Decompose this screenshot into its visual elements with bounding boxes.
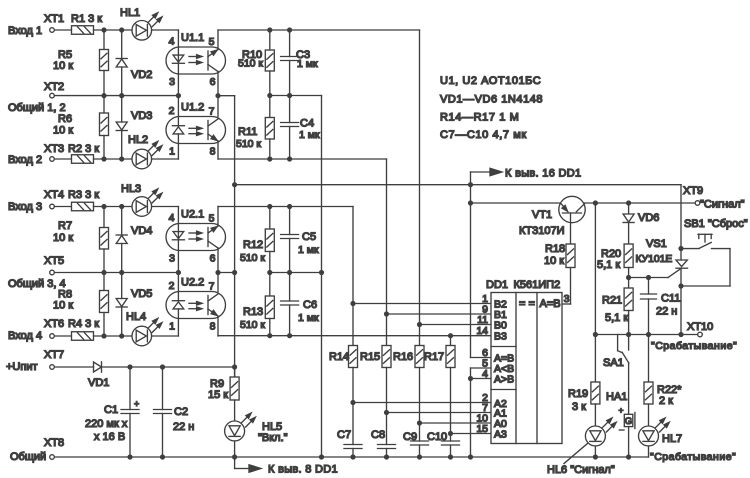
wire B2 to DD1 pin1 bbox=[353, 303, 491, 305]
svg-text:VS1: VS1 bbox=[646, 238, 667, 250]
svg-text:HL4: HL4 bbox=[126, 311, 146, 323]
svg-text:6: 6 bbox=[210, 253, 216, 265]
wire R19 column bbox=[594, 203, 596, 335]
wire U1.1 pin6 drop bbox=[217, 72, 219, 96]
svg-text:1 мк: 1 мк bbox=[299, 129, 320, 141]
node R19 top bbox=[593, 332, 598, 337]
svg-text:К выв. 16 DD1: К выв. 16 DD1 bbox=[505, 168, 581, 180]
svg-text:1: 1 bbox=[169, 321, 175, 333]
wire HL4 to U2.2 pin1 bbox=[152, 335, 179, 337]
node C6 bottom bbox=[287, 333, 292, 338]
node VS1 anode SB1 contact bbox=[678, 246, 683, 251]
wire ground rail Obschiy bbox=[55, 456, 649, 458]
svg-text:Вход 3: Вход 3 bbox=[8, 201, 42, 213]
diode VD4 bbox=[121, 207, 123, 236]
svg-text:R15: R15 bbox=[360, 351, 380, 363]
LED HL2 bbox=[132, 149, 152, 169]
node R3-R7 junction bbox=[101, 204, 106, 209]
svg-text:XT4: XT4 bbox=[44, 189, 64, 201]
svg-text:XT3: XT3 bbox=[44, 143, 64, 155]
svg-text:VD5: VD5 bbox=[131, 288, 152, 300]
capacitor C1 electrolytic bbox=[129, 367, 131, 410]
wire U2.2 pin7 rise bbox=[217, 273, 219, 292]
svg-text:1 мк: 1 мк bbox=[298, 312, 319, 324]
svg-text:VT1: VT1 bbox=[532, 209, 552, 221]
wire DD1 pin5 stub bbox=[471, 367, 492, 369]
svg-text:15: 15 bbox=[476, 423, 488, 435]
wire VS1 cathode down bbox=[680, 286, 682, 335]
svg-text:220 мк х: 220 мк х bbox=[85, 418, 128, 430]
node R17 top tap B3 bbox=[448, 333, 453, 338]
svg-text:10 к: 10 к bbox=[544, 255, 564, 267]
wire VT1 collector line bbox=[585, 202, 695, 204]
resistor R1 bbox=[72, 26, 94, 35]
sounder HA1 bbox=[624, 414, 633, 426]
resistor R15 bbox=[382, 346, 391, 368]
node U2 pins 3-2 bbox=[176, 270, 181, 275]
svg-text:КУ101Е: КУ101Е bbox=[636, 254, 673, 265]
svg-text:R13: R13 bbox=[243, 306, 263, 318]
node C11 top bbox=[646, 275, 651, 280]
LED HL4 bbox=[132, 326, 152, 346]
capacitor C5 bbox=[289, 207, 291, 235]
node C3 top bbox=[287, 27, 292, 32]
resistor R17 bbox=[446, 346, 455, 368]
resistor R5 bbox=[103, 30, 105, 50]
svg-text:R7: R7 bbox=[58, 220, 72, 232]
transistor VT1 bbox=[559, 196, 585, 222]
LED HL5 bbox=[225, 421, 245, 441]
svg-text:VD3: VD3 bbox=[131, 110, 152, 122]
terminal XT4 bbox=[50, 204, 55, 209]
node VD5 bottom bbox=[119, 333, 124, 338]
wire U2.1 pin5 rise bbox=[217, 207, 219, 227]
wire HL6 pointer bbox=[564, 444, 588, 464]
terminal XT8 bbox=[50, 455, 55, 460]
wire A3 to DD1 pin15 bbox=[451, 433, 492, 435]
svg-text:C4: C4 bbox=[300, 118, 314, 130]
svg-text:VD2: VD2 bbox=[131, 69, 152, 81]
resistor R7 bbox=[103, 207, 105, 228]
resistor R10 bbox=[269, 30, 271, 50]
svg-text:+: + bbox=[134, 399, 139, 409]
svg-text:R19: R19 bbox=[568, 388, 588, 400]
wire U2.1 pin6 drop bbox=[217, 248, 219, 273]
node VD6 top bbox=[626, 200, 631, 205]
pushbutton SB1 bbox=[681, 248, 699, 250]
svg-text:C10: C10 bbox=[427, 431, 447, 443]
svg-text:HA1: HA1 bbox=[606, 391, 627, 403]
svg-text:+Uпит: +Uпит bbox=[6, 361, 38, 373]
wire +V corner down to SB1 VS1 bbox=[680, 185, 682, 249]
svg-text:HL1: HL1 bbox=[120, 7, 140, 19]
thyristor VS1 bbox=[680, 249, 682, 261]
svg-text:4: 4 bbox=[482, 368, 488, 380]
wire HL2 to U1.2 pin1 bbox=[152, 158, 179, 160]
wire pin4 drop U2.1 bbox=[177, 207, 179, 224]
wire U2.2 pin8 drop bbox=[217, 316, 219, 336]
svg-text:Вход 1: Вход 1 bbox=[8, 25, 42, 37]
wire B1 to DD1 pin9 bbox=[387, 313, 492, 315]
svg-text:22 н: 22 н bbox=[173, 421, 194, 433]
resistor R11 bbox=[269, 96, 271, 118]
svg-text:22 н: 22 н bbox=[656, 306, 677, 318]
wire column R17 bbox=[450, 336, 452, 346]
svg-text:2: 2 bbox=[169, 280, 175, 292]
svg-text:К561ИП2: К561ИП2 bbox=[514, 279, 561, 291]
svg-text:3: 3 bbox=[169, 253, 175, 265]
wire R1 to HL1 bbox=[94, 29, 133, 31]
node x322 at Obschiy 3,4 level bbox=[319, 270, 324, 275]
optocoupler U2.1 bbox=[166, 224, 226, 251]
node ground at x470 bbox=[468, 454, 473, 459]
svg-text:5: 5 bbox=[209, 36, 215, 48]
node R5 bottom bbox=[101, 93, 106, 98]
svg-text:7: 7 bbox=[209, 281, 215, 293]
svg-text:5,1 к: 5,1 к bbox=[597, 259, 620, 271]
svg-text:10 к: 10 к bbox=[53, 125, 73, 137]
diode VD1 bbox=[94, 362, 102, 372]
node lower jog join bbox=[232, 270, 237, 275]
wire U1 pins 3-2 vertical bbox=[177, 74, 179, 117]
wire VT1 emitter feed bbox=[471, 202, 560, 204]
resistor R14 bbox=[349, 346, 358, 368]
svg-text:2 к: 2 к bbox=[659, 395, 673, 407]
node U1 pins 3-2 bbox=[176, 93, 181, 98]
svg-text:R17: R17 bbox=[424, 351, 444, 363]
svg-text:3: 3 bbox=[169, 76, 175, 88]
svg-text:4: 4 bbox=[169, 212, 175, 224]
terminal XT3 bbox=[50, 157, 55, 162]
terminal XT5 bbox=[50, 270, 55, 275]
terminal XT1 bbox=[50, 28, 55, 33]
svg-text:2: 2 bbox=[169, 105, 175, 117]
wire R18 to DD1 pin3 bbox=[570, 268, 572, 305]
svg-text:R11: R11 bbox=[238, 126, 257, 138]
capacitor C4 bbox=[289, 96, 291, 123]
node A1 tap bbox=[384, 410, 389, 415]
svg-text:R21: R21 bbox=[602, 295, 622, 307]
node R10 top bbox=[267, 27, 272, 32]
wire A0 to DD1 pin10 bbox=[420, 422, 492, 424]
wire x470 down to DD1 pin6 bbox=[470, 185, 472, 358]
resistor R20 bbox=[624, 244, 633, 268]
svg-text:VD4: VD4 bbox=[131, 225, 152, 237]
wire VT1 base to R18 bbox=[570, 223, 572, 244]
svg-text:C9: C9 bbox=[403, 431, 417, 443]
LED HL6 bbox=[585, 426, 605, 446]
wire R20 to gate node bbox=[628, 268, 630, 278]
wire pin1 rise U2.2 bbox=[177, 319, 179, 337]
wire pin1 rise bbox=[177, 141, 179, 159]
svg-text:C6: C6 bbox=[303, 299, 317, 311]
svg-text:510 к: 510 к bbox=[240, 319, 265, 331]
svg-text:R6: R6 bbox=[58, 113, 72, 125]
svg-text:C1: C1 bbox=[104, 404, 118, 416]
svg-text:15 к: 15 к bbox=[208, 389, 228, 401]
svg-text:HL2: HL2 bbox=[128, 134, 148, 146]
svg-text:510 к: 510 к bbox=[240, 252, 265, 264]
wire input rail Vhod 3 bbox=[55, 206, 72, 208]
node cathode at XT10 row bbox=[678, 332, 683, 337]
svg-text:SB1 "Сброс": SB1 "Сброс" bbox=[684, 218, 748, 230]
node U1 pins 6-7 bbox=[215, 93, 220, 98]
capacitor C8 bbox=[378, 444, 396, 446]
svg-text:XT2: XT2 bbox=[44, 81, 64, 93]
svg-text:XT5: XT5 bbox=[44, 255, 64, 267]
svg-text:7: 7 bbox=[209, 106, 215, 118]
svg-text:С7—С10 4,7 мк: С7—С10 4,7 мк bbox=[440, 129, 527, 141]
svg-text:DD1: DD1 bbox=[486, 279, 508, 291]
svg-text:Общий: Общий bbox=[10, 451, 46, 463]
svg-text:8: 8 bbox=[210, 146, 216, 158]
node SB1 return bbox=[678, 283, 683, 288]
wire R4 to HL4 bbox=[94, 335, 133, 337]
svg-text:= =: = = bbox=[519, 298, 535, 310]
wire R16 to C9 bbox=[419, 368, 421, 442]
node B0 tap bbox=[417, 322, 422, 327]
svg-text:U1, U2 АОТ101БС: U1, U2 АОТ101БС bbox=[440, 75, 541, 87]
svg-text:B3: B3 bbox=[494, 331, 507, 343]
resistor R12 bbox=[269, 207, 271, 230]
svg-text:HL6 "Сигнал": HL6 "Сигнал" bbox=[547, 464, 615, 476]
wire input rail Vhod 4 bbox=[55, 335, 72, 337]
wire A2 to DD1 pin2 bbox=[353, 402, 491, 404]
wire B0 to DD1 pin11 bbox=[420, 324, 492, 326]
svg-text:R12: R12 bbox=[243, 239, 263, 251]
svg-text:3: 3 bbox=[564, 293, 570, 305]
svg-text:XT10: XT10 bbox=[687, 321, 713, 333]
svg-text:VD1—VD6 1N4148: VD1—VD6 1N4148 bbox=[440, 94, 543, 106]
node VD4 bottom bbox=[119, 270, 124, 275]
wire R2 to HL2 bbox=[94, 158, 133, 160]
wire R15 to C8 bbox=[386, 368, 388, 445]
node C11 bottom bbox=[646, 332, 651, 337]
node U2 pins 6-7 bbox=[215, 270, 220, 275]
svg-text:C7: C7 bbox=[337, 429, 351, 441]
wire R3 to HL3 bbox=[94, 206, 133, 208]
svg-text:510 к: 510 к bbox=[236, 138, 261, 150]
capacitor C2 bbox=[162, 367, 164, 410]
svg-text:C8: C8 bbox=[371, 429, 385, 441]
node R19 column top bbox=[593, 200, 598, 205]
LED HL3 bbox=[132, 197, 152, 217]
svg-text:КТ3107И: КТ3107И bbox=[519, 225, 565, 237]
svg-text:C5: C5 bbox=[302, 231, 316, 243]
IC DD1 box bbox=[491, 293, 562, 444]
node R2-R6 junction bbox=[101, 156, 106, 161]
resistor R3 bbox=[72, 202, 94, 211]
optocoupler U1.1 bbox=[166, 47, 226, 74]
svg-text:A>B: A>B bbox=[494, 374, 514, 386]
wire HL3 to U2.1 pin4 bbox=[152, 206, 179, 208]
wire pin4 drop bbox=[177, 30, 179, 47]
svg-text:U2.1: U2.1 bbox=[181, 209, 204, 221]
wire U1.1 pin5 rise bbox=[217, 30, 219, 50]
wire input rail Vhod 1 bbox=[55, 29, 72, 31]
optocoupler U2.2 bbox=[166, 292, 226, 319]
svg-text:10 к: 10 к bbox=[53, 60, 73, 72]
resistor R8 bbox=[103, 273, 105, 291]
wire pin5 rail to R12 C5 top bbox=[218, 206, 353, 208]
svg-text:"Срабатывание": "Срабатывание" bbox=[651, 340, 737, 352]
svg-text:"Срабатывание": "Срабатывание" bbox=[650, 451, 736, 463]
svg-text:5: 5 bbox=[209, 213, 215, 225]
wire column R14 from Vhod3 rail bbox=[352, 207, 354, 346]
diode VD5 bbox=[121, 273, 123, 299]
svg-text:"Сигнал": "Сигнал" bbox=[700, 199, 745, 211]
svg-text:6: 6 bbox=[210, 76, 216, 88]
svg-text:8: 8 bbox=[210, 321, 216, 333]
node C1 top bbox=[127, 364, 132, 369]
optocoupler U1.2 bbox=[166, 117, 226, 144]
wire U1.2 pin7 rise bbox=[217, 96, 219, 117]
wire column R16 from Vhod1 rail bbox=[419, 30, 421, 346]
terminal XT7 bbox=[50, 365, 55, 370]
wire pin5 rail to R10 C3 bbox=[218, 29, 420, 31]
terminal XT6 bbox=[50, 334, 55, 339]
svg-text:U1.1: U1.1 bbox=[181, 32, 204, 44]
capacitor C10 bbox=[442, 440, 460, 442]
capacitor C6 bbox=[289, 273, 291, 302]
wire HL1 to U1.1 pin4 bbox=[152, 29, 179, 31]
svg-text:A=B: A=B bbox=[540, 298, 561, 310]
svg-text:1 мк: 1 мк bbox=[298, 244, 319, 256]
node B2 tap bbox=[350, 301, 355, 306]
svg-text:VD1: VD1 bbox=[88, 377, 109, 389]
svg-text:4: 4 bbox=[169, 36, 175, 48]
svg-text:SA1: SA1 bbox=[603, 357, 624, 369]
svg-text:х 16 В: х 16 В bbox=[94, 431, 125, 443]
switch SA1 bbox=[617, 335, 619, 351]
node gate node bbox=[626, 275, 631, 280]
segment R10-C3 bottom / R11-C4 top bbox=[270, 95, 322, 97]
wire pins6-7 jog lower bbox=[218, 272, 235, 274]
node R12 top bbox=[267, 204, 272, 209]
wire pin8 rail to R11 C4 bottom bbox=[218, 158, 387, 160]
svg-text:HL3: HL3 bbox=[121, 183, 141, 195]
svg-text:HL7: HL7 bbox=[662, 433, 682, 445]
wire +V rail bbox=[235, 184, 681, 186]
svg-text:XT7: XT7 bbox=[44, 349, 64, 361]
node +V rail start bbox=[232, 182, 237, 187]
terminal XT10 bbox=[698, 332, 703, 337]
svg-text:"Вкл.": "Вкл." bbox=[258, 432, 288, 444]
node VD4 top bbox=[119, 204, 124, 209]
svg-text:R14—R17 1 М: R14—R17 1 М bbox=[440, 112, 519, 124]
svg-text:R1 3 к: R1 3 к bbox=[71, 13, 102, 25]
LED HL7 bbox=[639, 426, 659, 446]
resistor R19 bbox=[594, 335, 596, 383]
resistor R21 bbox=[628, 278, 630, 289]
node VT1 emitter tap bbox=[468, 200, 473, 205]
capacitor C7 bbox=[344, 444, 362, 446]
svg-text:R2 3 к: R2 3 к bbox=[68, 143, 99, 155]
wire DD1 pin6 stub bbox=[471, 357, 492, 359]
svg-text:Вход 2: Вход 2 bbox=[8, 154, 42, 166]
svg-text:10 к: 10 к bbox=[53, 300, 73, 312]
node C4 bottom bbox=[287, 156, 292, 161]
svg-text:1 мк: 1 мк bbox=[297, 58, 318, 70]
svg-text:R14: R14 bbox=[329, 351, 349, 363]
svg-text:5,1 к: 5,1 к bbox=[605, 312, 628, 324]
wire pin8 rail to DD1 pin14 B3 bbox=[218, 335, 491, 337]
diode VD2 bbox=[121, 30, 123, 59]
wire common column x235 bbox=[234, 96, 236, 377]
node A3 tap bbox=[448, 431, 453, 436]
wire column R15 from pin8 rail bbox=[386, 159, 388, 346]
node B1 tap bbox=[384, 311, 389, 316]
svg-text:U2.2: U2.2 bbox=[181, 277, 204, 289]
wire ground drop x322 bbox=[321, 96, 323, 458]
diode VD3 bbox=[121, 96, 123, 122]
node VD2 bottom bbox=[119, 93, 124, 98]
wire U1.2 pin8 drop bbox=[217, 141, 219, 159]
resistor R2 bbox=[72, 155, 94, 164]
svg-text:A3: A3 bbox=[494, 429, 507, 441]
capacitor C9 bbox=[411, 440, 429, 442]
arrow to pin 8 DD1 bbox=[234, 457, 236, 469]
wire rail Obschiy 3,4 bbox=[55, 272, 179, 274]
svg-text:U1.2: U1.2 bbox=[181, 102, 204, 114]
resistor R4 bbox=[72, 332, 94, 341]
resistor R22 bbox=[648, 335, 650, 383]
capacitor C3 bbox=[289, 30, 291, 57]
wire A1 to DD1 pin7 bbox=[387, 412, 492, 414]
svg-text:G: G bbox=[625, 416, 632, 427]
resistor R16 bbox=[415, 346, 424, 368]
node +V at x470 bbox=[468, 182, 473, 187]
wire R17 to C10 bbox=[450, 368, 452, 442]
svg-text:К выв. 8 DD1: К выв. 8 DD1 bbox=[268, 464, 338, 476]
terminal XT9 bbox=[695, 201, 700, 206]
svg-text:1: 1 bbox=[169, 146, 175, 158]
svg-text:3 к: 3 к bbox=[572, 401, 586, 413]
node R1-R5 junction bbox=[101, 27, 106, 32]
node R21 bottom bbox=[626, 332, 631, 337]
segment R12-C5 bottom / R13-C6 top bbox=[270, 272, 322, 274]
node R4-R8 junction bbox=[101, 333, 106, 338]
node R13 bottom bbox=[267, 333, 272, 338]
wire +Upit rail bbox=[55, 366, 94, 368]
wire gate line bbox=[629, 277, 668, 279]
svg-text:XT9: XT9 bbox=[683, 185, 703, 197]
svg-text:R16: R16 bbox=[393, 351, 413, 363]
node VD2 top junction bbox=[119, 27, 124, 32]
node C2 top bbox=[160, 364, 165, 369]
wire pins6-7 jog bbox=[218, 95, 235, 97]
svg-text:+: + bbox=[619, 405, 624, 415]
svg-text:C11: C11 bbox=[661, 293, 680, 305]
node A2 tap bbox=[350, 400, 355, 405]
node VD3 bottom bbox=[119, 156, 124, 161]
wire SB1 return loop bbox=[729, 249, 731, 286]
wire XT10 row bbox=[595, 334, 697, 336]
svg-text:R4 3 к: R4 3 к bbox=[68, 318, 99, 330]
svg-text:XT8: XT8 bbox=[44, 437, 64, 449]
node +Upit rail end bbox=[232, 364, 237, 369]
node R7 bottom bbox=[101, 270, 106, 275]
svg-text:510 к: 510 к bbox=[238, 58, 263, 70]
svg-text:XT6: XT6 bbox=[44, 318, 64, 330]
svg-text:XT1: XT1 bbox=[44, 13, 64, 25]
svg-text:R18: R18 bbox=[545, 243, 565, 255]
resistor R13 bbox=[269, 273, 271, 297]
svg-text:14: 14 bbox=[476, 325, 488, 337]
node pin4 junction bbox=[468, 376, 473, 381]
wire U2 pins 3-2 vertical bbox=[177, 251, 179, 292]
resistor R6 bbox=[103, 96, 105, 113]
